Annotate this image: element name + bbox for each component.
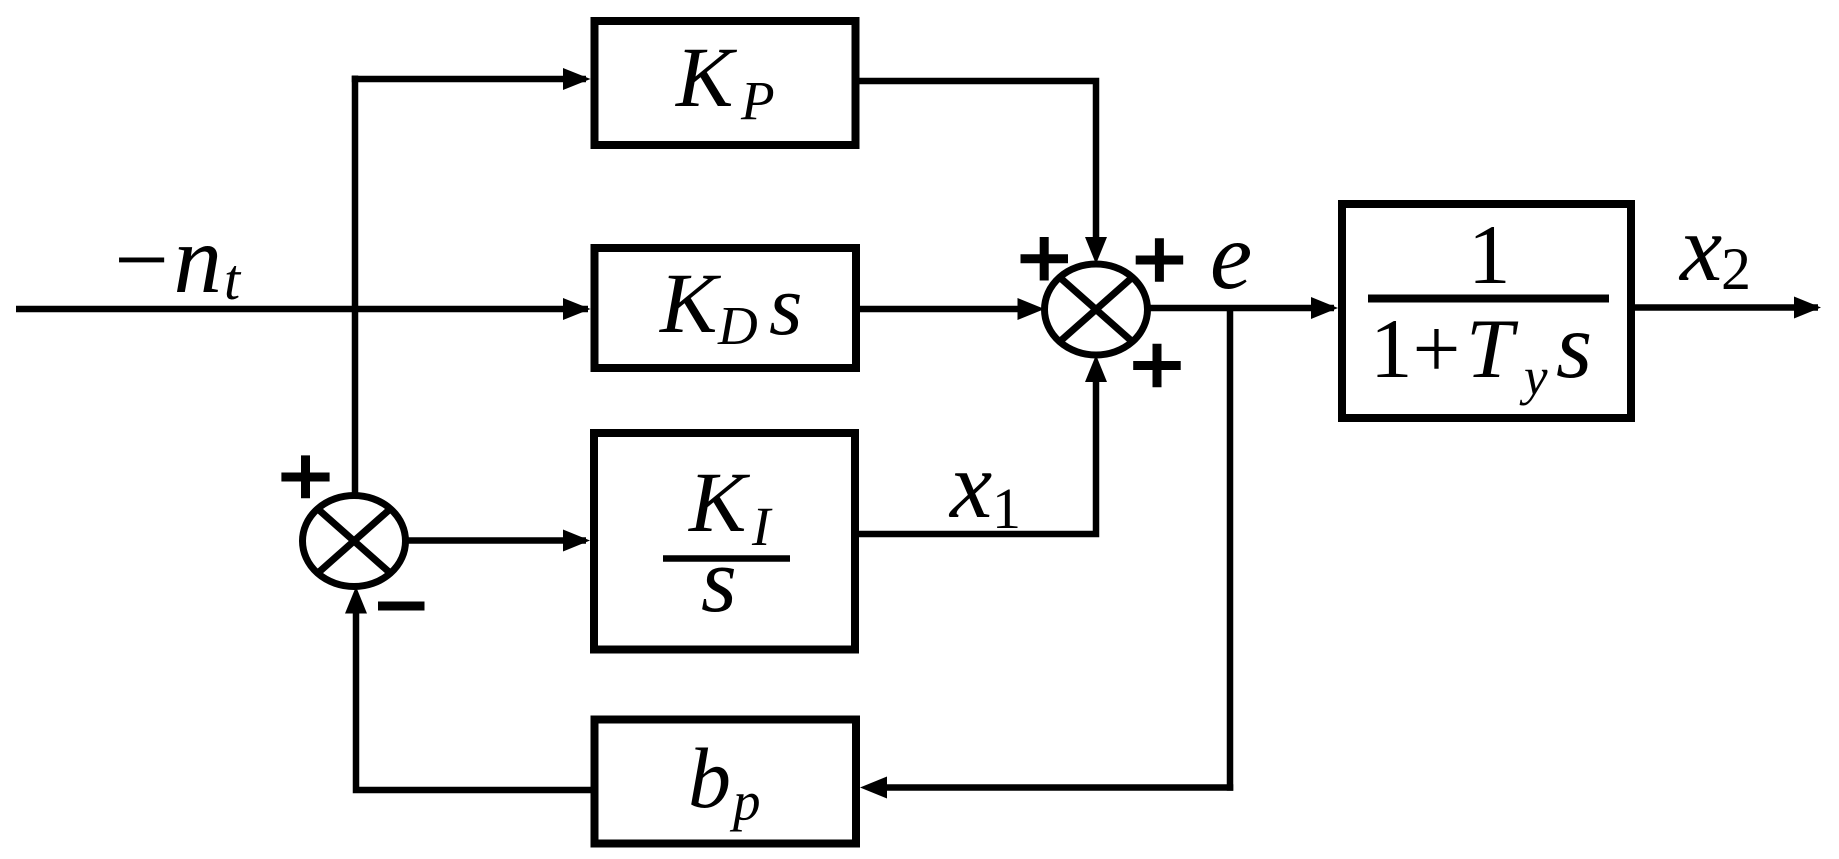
svg-text:s: s: [1556, 295, 1592, 398]
block 1/(1+Ty s): [1342, 204, 1631, 418]
label K_I fraction: [663, 454, 790, 631]
arrowhead into right block: [1311, 297, 1338, 319]
svg-text:1: 1: [1468, 208, 1511, 302]
fraction 1/(1+Ty s): [1368, 208, 1609, 406]
wire: K_P output to right sum: [860, 81, 1097, 240]
label K_D s: [658, 255, 802, 356]
block K_P: [595, 21, 856, 145]
svg-text:K: K: [658, 255, 722, 351]
arrowhead into sum2 left: [1018, 298, 1045, 320]
minus sign below-right of S1: [378, 602, 425, 611]
wire: S2 output to right block with junction: [1148, 305, 1335, 312]
svg-text:e: e: [1210, 203, 1252, 309]
arrowhead into S1 bottom: [345, 587, 367, 614]
plus sign top-right of S2: [1136, 238, 1184, 282]
svg-text:I: I: [751, 496, 773, 557]
wire: input -n_t horizontal line: [16, 306, 588, 313]
svg-text:1+: 1+: [1370, 302, 1460, 396]
summing junction S1 (left) circle: [303, 496, 406, 587]
arrowhead into sum2 top: [1085, 237, 1107, 264]
label K_P: [674, 29, 775, 131]
wire: feedback vertical from e-node: [1227, 308, 1234, 791]
arrowhead output: [1794, 297, 1821, 319]
svg-text:D: D: [717, 295, 758, 356]
block K_I / s: [594, 433, 855, 650]
label b_p: [688, 730, 761, 832]
arrowhead into K_P: [563, 68, 591, 90]
svg-text:P: P: [740, 70, 775, 131]
wire: K_D s output to right sum: [860, 306, 1020, 313]
label x_2: [1678, 195, 1751, 302]
wire: top branch to K_P: [352, 76, 586, 83]
arrowhead into K_I: [563, 530, 590, 552]
svg-text:p: p: [729, 771, 761, 832]
wire: vertical branch at x=355: [352, 76, 359, 497]
arrowhead into K_D s: [563, 298, 591, 320]
S2 cross X: [1060, 277, 1133, 341]
wire: feedback horizontal into b_p: [886, 784, 1233, 791]
svg-text:b: b: [688, 730, 731, 826]
plus sign bottom-right of S2: [1133, 344, 1181, 388]
svg-text:1: 1: [992, 476, 1021, 541]
svg-text:2: 2: [1721, 236, 1751, 302]
wire: left sum output to K_I: [405, 537, 586, 544]
arrowhead into S2 bottom: [1085, 355, 1107, 382]
svg-text:T: T: [1466, 302, 1519, 396]
svg-text:x: x: [948, 432, 992, 538]
wire: K_I output x1 to S2 bottom: [859, 380, 1096, 534]
block b_p: [595, 720, 857, 844]
wire: output x2: [1635, 304, 1818, 311]
svg-text:K: K: [674, 29, 738, 125]
arrowhead into b_p right: [860, 777, 887, 799]
wire: b_p output to S1 bottom: [356, 612, 591, 790]
svg-text:s: s: [769, 257, 802, 353]
svg-text:x: x: [1678, 195, 1722, 301]
plus sign top-left of S1: [281, 455, 329, 498]
block K_D s: [595, 248, 857, 368]
svg-text:s: s: [701, 529, 737, 631]
svg-text:t: t: [224, 247, 242, 312]
label -n_t: [108, 206, 242, 313]
label x_1: [948, 432, 1021, 541]
S1 cross X: [318, 509, 391, 573]
svg-text:y: y: [1519, 348, 1548, 406]
summing junction S2 (right) circle: [1045, 264, 1148, 355]
plus sign top-left of S2: [1021, 237, 1069, 281]
svg-text:−n: −n: [108, 206, 222, 313]
